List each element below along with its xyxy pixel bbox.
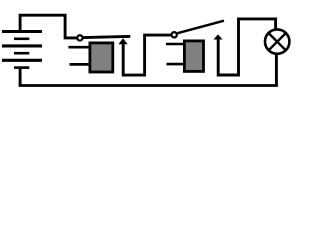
switch S1 arm (closed): [83, 36, 130, 37]
wire: battery positive terminal up, across top, down to switch S1: [20, 15, 77, 38]
wire: bottom rail: [19, 84, 278, 87]
lamp X stroke 2: [269, 33, 286, 50]
coil K2 lead 1: [166, 43, 185, 46]
battery B1 long plate 3: [2, 59, 42, 62]
contact arrow 2 head: [214, 34, 223, 39]
lamp X stroke 1: [269, 33, 286, 50]
relay coil K1: [90, 43, 113, 72]
wire: arrow 1 shaft, loop under coil K1, up to switch S2 feed: [123, 35, 171, 75]
coil K2 lead 2: [167, 63, 186, 66]
coil K1 lead 1: [68, 46, 90, 49]
switch S1 pivot: [77, 35, 82, 40]
wire: battery negative terminal down to bottom rail: [19, 68, 22, 86]
contact arrow 1 head: [118, 38, 127, 44]
coil K1 lead 2: [70, 63, 91, 66]
battery B1 long plate 1: [2, 30, 42, 33]
wire: lamp to bottom rail: [275, 55, 278, 86]
battery B1 short plate 1: [14, 37, 29, 40]
battery B1 short plate 3: [14, 66, 29, 69]
switch S2 arm (open): [178, 21, 225, 34]
switch S2 pivot: [172, 32, 177, 37]
lamp L1: [265, 29, 289, 53]
relay coil K2: [184, 41, 203, 72]
battery B1 long plate 2: [2, 44, 42, 47]
wire: arrow 2 shaft, loop under coil K2, up and across to lamp: [218, 19, 275, 75]
battery B1 short plate 2: [14, 52, 29, 55]
